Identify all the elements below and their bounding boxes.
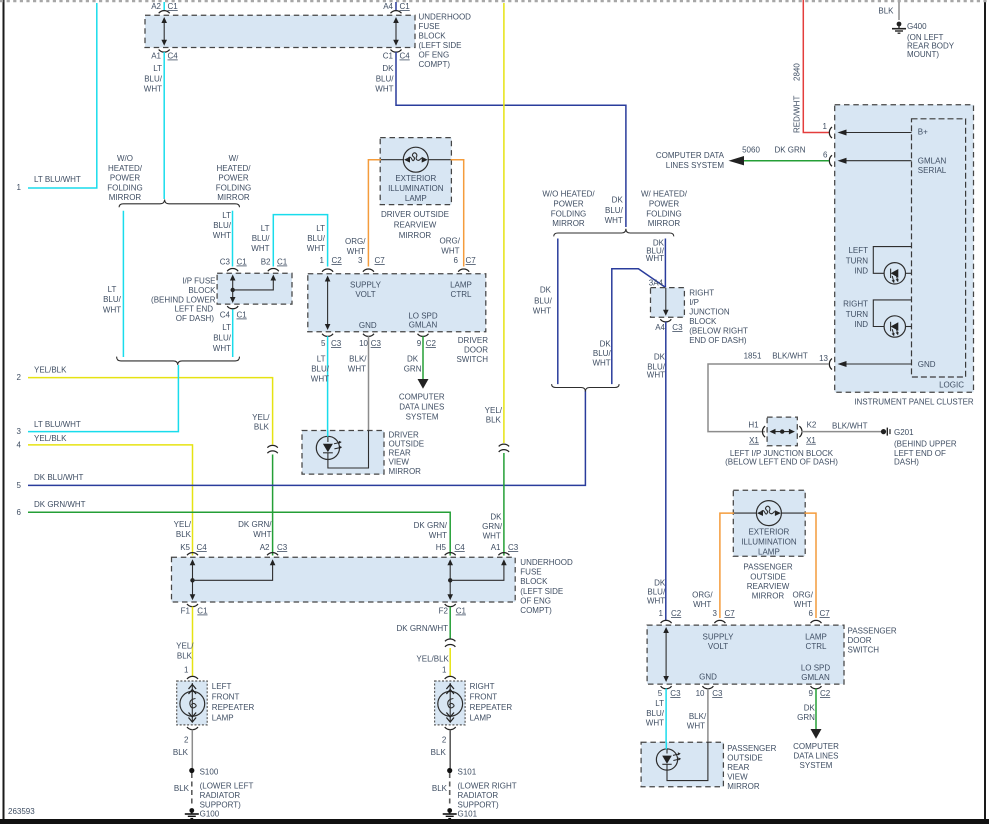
svg-text:K5: K5 — [180, 543, 190, 552]
right repeater pin2 — [431, 727, 456, 768]
svg-text:YEL/BLK: YEL/BLK — [34, 434, 67, 443]
svg-text:G201: G201 — [894, 428, 914, 437]
svg-text:GMLAN: GMLAN — [801, 673, 830, 682]
svg-text:(BEHIND LOWER: (BEHIND LOWER — [151, 296, 216, 305]
svg-text:A4: A4 — [383, 2, 393, 11]
UFB2 pin H5/C4 — [436, 543, 466, 555]
svg-text:POWER: POWER — [110, 174, 140, 183]
svg-text:GND: GND — [699, 673, 717, 682]
I/P fuse block label — [151, 277, 216, 324]
svg-text:COMPUTER DATA: COMPUTER DATA — [656, 151, 725, 160]
wire LT BLU/WHT pin5 down — [311, 336, 330, 437]
svg-text:REPEATER: REPEATER — [212, 703, 255, 712]
svg-text:(BELOW RIGHT: (BELOW RIGHT — [689, 327, 748, 336]
svg-text:WHT: WHT — [144, 85, 162, 94]
UFB1 pin A2/C1 top stub — [151, 2, 178, 13]
svg-text:C3: C3 — [277, 543, 288, 552]
svg-text:FUSE: FUSE — [419, 22, 440, 31]
wire LT BLU/WHT from A1 to brace — [144, 52, 164, 199]
svg-text:WHT: WHT — [429, 531, 447, 540]
svg-text:5: 5 — [17, 481, 22, 490]
svg-text:10: 10 — [696, 689, 705, 698]
svg-text:C7: C7 — [725, 609, 736, 618]
svg-text:C4: C4 — [197, 543, 208, 552]
brace 1 labels — [542, 189, 687, 228]
svg-text:RIGHT: RIGHT — [843, 300, 868, 309]
svg-text:ORG/: ORG/ — [440, 237, 461, 246]
wire DK GRN/WHT from F2 — [397, 607, 451, 639]
svg-text:LT: LT — [316, 224, 325, 233]
svg-text:BLK/: BLK/ — [349, 355, 367, 364]
svg-text:MIRROR: MIRROR — [217, 193, 250, 202]
computer data lines caption passenger — [793, 742, 839, 770]
svg-text:DRIVER OUTSIDE: DRIVER OUTSIDE — [381, 210, 449, 219]
underhood fuse block top box — [145, 15, 415, 47]
svg-text:LOGIC: LOGIC — [939, 381, 964, 390]
UFB2 internal right — [447, 559, 506, 600]
PDS pin 6/C7 top — [809, 609, 831, 623]
passenger exterior illumination lamp symbol — [733, 501, 805, 557]
svg-text:DK BLU/WHT: DK BLU/WHT — [34, 473, 83, 482]
wire BLK/WHT pin10 down — [348, 336, 369, 468]
svg-text:FRONT: FRONT — [212, 693, 240, 702]
svg-text:DK: DK — [804, 703, 816, 712]
svg-text:WHT: WHT — [375, 85, 393, 94]
svg-text:WHT: WHT — [647, 371, 665, 380]
driver mirror LED — [316, 436, 342, 459]
DDS pin 6/C7 top — [454, 256, 477, 272]
svg-text:B2: B2 — [261, 258, 271, 267]
svg-text:1: 1 — [184, 666, 189, 675]
svg-text:YEL/BLK: YEL/BLK — [416, 655, 449, 664]
svg-text:WHT: WHT — [253, 530, 271, 539]
I/P fuse block box — [217, 273, 292, 304]
svg-text:RIGHT: RIGHT — [689, 289, 714, 298]
svg-text:REAR: REAR — [727, 763, 749, 772]
svg-text:(LOWER RIGHT: (LOWER RIGHT — [458, 782, 517, 791]
svg-text:MIRROR: MIRROR — [552, 219, 585, 228]
svg-text:2840: 2840 — [793, 63, 802, 81]
cluster pin 13 GND — [744, 352, 936, 370]
svg-text:G400: G400 — [907, 22, 927, 31]
left front repeater lamp — [177, 681, 208, 725]
svg-text:OF ENG: OF ENG — [520, 596, 551, 605]
brace 0b gather — [117, 357, 240, 365]
svg-text:WHT: WHT — [103, 306, 121, 315]
svg-text:G100: G100 — [200, 810, 220, 819]
svg-text:LAMP: LAMP — [450, 281, 472, 290]
svg-text:GRN: GRN — [404, 365, 422, 374]
svg-text:C3: C3 — [220, 258, 231, 267]
svg-text:MIRROR: MIRROR — [399, 231, 432, 240]
svg-text:6: 6 — [454, 256, 459, 265]
svg-text:SWITCH: SWITCH — [848, 646, 880, 655]
cluster pin 6 GMLAN serial — [729, 146, 947, 176]
wire BLK/WHT pin10 down passenger — [687, 689, 708, 781]
svg-text:ILLUMINATION: ILLUMINATION — [741, 538, 797, 547]
computer data lines caption cluster — [656, 151, 725, 170]
svg-text:GRN/: GRN/ — [482, 522, 503, 531]
svg-text:H5: H5 — [436, 543, 447, 552]
svg-text:S100: S100 — [200, 768, 219, 777]
wire 6 DK GRN/WHT — [17, 500, 451, 556]
wire BLK to G101 — [432, 773, 450, 806]
PDS pin 10/C3 bottom — [696, 686, 723, 698]
wire 1851 BLK/WHT — [708, 364, 829, 432]
svg-text:TURN: TURN — [846, 310, 868, 319]
svg-text:B+: B+ — [918, 128, 928, 137]
svg-text:GMLAN: GMLAN — [918, 157, 947, 166]
wire 4 YEL/BLK — [17, 434, 193, 556]
svg-text:DK GRN/: DK GRN/ — [238, 520, 272, 529]
UFB2 pin A2/C3 — [260, 543, 288, 555]
svg-text:C7: C7 — [466, 256, 477, 265]
svg-text:DRIVER: DRIVER — [458, 336, 488, 345]
svg-text:VOLT: VOLT — [355, 290, 375, 299]
svg-text:DOOR: DOOR — [464, 346, 488, 355]
svg-text:BLK: BLK — [173, 748, 189, 757]
svg-text:MIRROR: MIRROR — [109, 193, 142, 202]
brace 0b right wire from IP fuse C4 — [213, 310, 233, 358]
svg-text:2: 2 — [442, 736, 447, 745]
svg-text:YEL/: YEL/ — [174, 520, 192, 529]
svg-text:(LEFT SIDE: (LEFT SIDE — [520, 587, 563, 596]
svg-text:C3: C3 — [670, 689, 681, 698]
svg-text:BLU/: BLU/ — [376, 75, 395, 84]
wire YEL/BLK to right repeater — [416, 648, 450, 677]
driver door switch caption — [456, 336, 488, 364]
svg-text:WHT: WHT — [347, 247, 365, 256]
svg-text:DK GRN/WHT: DK GRN/WHT — [34, 500, 86, 509]
svg-text:LEFT I/P JUNCTION BLOCK: LEFT I/P JUNCTION BLOCK — [730, 449, 834, 458]
svg-text:1: 1 — [320, 256, 325, 265]
wire DK BLU/WHT from C1 pin of UFB1 — [375, 52, 626, 227]
svg-text:LT BLU/WHT: LT BLU/WHT — [34, 420, 81, 429]
svg-text:WHT: WHT — [441, 247, 459, 256]
svg-text:BLK: BLK — [878, 7, 894, 16]
svg-text:VOLT: VOLT — [708, 642, 728, 651]
svg-text:EXTERIOR: EXTERIOR — [395, 174, 436, 183]
svg-text:C3: C3 — [712, 689, 723, 698]
svg-text:BLU/: BLU/ — [646, 709, 665, 718]
svg-text:F2: F2 — [439, 607, 449, 616]
svg-text:OF DASH): OF DASH) — [176, 314, 215, 323]
svg-text:POWER: POWER — [218, 174, 248, 183]
svg-text:FOLDING: FOLDING — [646, 209, 682, 218]
svg-text:I/P: I/P — [689, 298, 699, 307]
svg-text:F1: F1 — [181, 607, 191, 616]
cluster pin 1 B+ — [823, 122, 929, 138]
svg-text:EXTERIOR: EXTERIOR — [748, 528, 789, 537]
svg-text:DK GRN: DK GRN — [774, 146, 805, 155]
brace 1 — [554, 229, 674, 237]
svg-text:UNDERHOOD: UNDERHOOD — [520, 558, 573, 567]
svg-text:9: 9 — [417, 339, 422, 348]
svg-text:SYSTEM: SYSTEM — [406, 413, 439, 422]
svg-text:BLK/WHT: BLK/WHT — [832, 422, 868, 431]
svg-text:9: 9 — [809, 689, 814, 698]
wire 1 LT BLU/WHT — [17, 3, 97, 192]
svg-text:W/O: W/O — [117, 154, 133, 163]
svg-text:MIRROR: MIRROR — [752, 592, 785, 601]
svg-text:LAMP: LAMP — [805, 633, 827, 642]
UFB1 pin C1/C4 bottom — [383, 50, 411, 61]
svg-text:SUPPLY: SUPPLY — [350, 281, 382, 290]
right turn indicator — [843, 300, 911, 338]
svg-text:C1: C1 — [277, 258, 288, 267]
IP fuse pin C3/C1 top — [220, 258, 248, 272]
svg-text:DK: DK — [600, 339, 612, 348]
svg-text:SUPPORT): SUPPORT) — [200, 801, 242, 810]
wire DK GRN pin9 arrow — [404, 336, 429, 389]
svg-text:C1: C1 — [400, 2, 411, 11]
svg-text:DK: DK — [654, 579, 666, 588]
splice connector on wire 2 — [267, 445, 277, 453]
wire ORG/WHT left of passenger lamp — [692, 513, 734, 618]
left repeater pin2 — [173, 727, 198, 768]
UFB2 label — [520, 558, 573, 615]
wire DK BLU/WHT A4 to passenger switch pin1 — [647, 322, 666, 621]
svg-text:LT: LT — [108, 285, 117, 294]
svg-text:GND: GND — [918, 360, 936, 369]
svg-text:2: 2 — [17, 373, 22, 382]
passenger mirror caption right — [727, 744, 776, 791]
brace 1 left branch wire — [533, 239, 558, 385]
svg-text:REARVIEW: REARVIEW — [394, 221, 437, 230]
svg-text:SUPPORT): SUPPORT) — [458, 801, 500, 810]
svg-text:FOLDING: FOLDING — [216, 183, 252, 192]
svg-text:WHT: WHT — [213, 344, 231, 353]
svg-text:C3: C3 — [508, 543, 519, 552]
svg-text:FUSE: FUSE — [520, 568, 541, 577]
svg-text:LEFT END: LEFT END — [174, 305, 213, 314]
page border left — [3, 0, 5, 821]
passenger mirror internal wiring — [666, 742, 708, 781]
svg-text:BLU/: BLU/ — [213, 221, 232, 230]
svg-text:C4: C4 — [400, 52, 411, 61]
svg-text:BLU/: BLU/ — [311, 365, 330, 374]
svg-text:IND: IND — [854, 266, 868, 275]
left IP junction block — [748, 417, 817, 446]
brace 0 right branch wire — [213, 211, 233, 267]
UFB1 internal arrow left — [161, 17, 167, 46]
G101 caption — [458, 782, 517, 810]
svg-text:C2: C2 — [820, 689, 831, 698]
svg-text:RED/WHT: RED/WHT — [793, 96, 802, 133]
svg-text:GND: GND — [359, 321, 377, 330]
splice S100 — [189, 768, 219, 777]
svg-text:CTRL: CTRL — [806, 642, 827, 651]
svg-text:K2: K2 — [807, 421, 817, 430]
svg-text:X1: X1 — [749, 436, 759, 445]
PDS pin 9/C2 bottom — [809, 686, 831, 698]
svg-text:LEFT: LEFT — [848, 246, 868, 255]
passenger mirror caption — [743, 563, 792, 601]
svg-text:MIRROR: MIRROR — [727, 782, 760, 791]
svg-text:LAMP: LAMP — [212, 714, 234, 723]
svg-text:SWITCH: SWITCH — [456, 355, 488, 364]
svg-text:YEL/: YEL/ — [485, 406, 503, 415]
right IP junction block caption — [689, 289, 748, 346]
svg-text:WHT: WHT — [646, 718, 664, 727]
right IP junction block — [649, 279, 685, 333]
svg-text:1: 1 — [442, 666, 447, 675]
left turn indicator — [846, 246, 912, 284]
svg-text:BLK: BLK — [177, 652, 193, 661]
svg-text:REPEATER: REPEATER — [470, 703, 513, 712]
svg-text:FOLDING: FOLDING — [551, 209, 587, 218]
G100 caption — [200, 782, 254, 810]
svg-text:W/O HEATED/: W/O HEATED/ — [542, 189, 595, 198]
svg-text:LO SPD: LO SPD — [408, 312, 438, 321]
DDS pin 3/C7 top — [358, 256, 385, 272]
svg-text:WHT: WHT — [483, 532, 501, 541]
svg-text:X1: X1 — [806, 436, 816, 445]
UFB2 pin F2/C1 bottom — [439, 604, 467, 616]
svg-text:LT: LT — [153, 64, 162, 73]
svg-text:IND: IND — [854, 320, 868, 329]
svg-text:LT: LT — [222, 323, 231, 332]
svg-text:PASSENGER: PASSENGER — [848, 627, 897, 636]
svg-text:13: 13 — [819, 354, 828, 363]
svg-text:BLU/: BLU/ — [307, 234, 326, 243]
svg-text:DOOR: DOOR — [848, 636, 872, 645]
wire DK GRN to A1 — [482, 453, 504, 556]
IP fuse pin C4/C1 bottom — [220, 306, 248, 319]
svg-text:C1: C1 — [383, 52, 394, 61]
svg-text:C1: C1 — [168, 2, 179, 11]
svg-text:C1: C1 — [197, 607, 208, 616]
UFB2 pin K5/C4 — [180, 543, 207, 555]
computer data lines caption driver — [399, 393, 445, 422]
svg-text:COMPT): COMPT) — [520, 606, 552, 615]
driver door switch box — [308, 274, 486, 332]
svg-text:LAMP: LAMP — [758, 548, 780, 557]
IP fuse internal arrows — [230, 275, 276, 304]
svg-text:WHT: WHT — [687, 722, 705, 731]
svg-text:6: 6 — [17, 508, 22, 517]
svg-text:BLU/: BLU/ — [593, 349, 612, 358]
svg-text:DK GRN/: DK GRN/ — [414, 521, 448, 530]
driver mirror caption — [381, 210, 449, 240]
svg-text:WHT: WHT — [646, 254, 664, 263]
svg-text:3: 3 — [713, 609, 718, 618]
driver exterior illumination lamp box — [380, 138, 451, 205]
UFB1 label — [419, 13, 472, 70]
svg-text:C3: C3 — [672, 323, 683, 332]
svg-text:C4: C4 — [220, 311, 231, 320]
svg-text:ORG/: ORG/ — [692, 591, 713, 600]
svg-text:BLU/: BLU/ — [144, 75, 163, 84]
svg-text:DK: DK — [382, 64, 394, 73]
svg-text:LT: LT — [261, 224, 270, 233]
svg-text:CTRL: CTRL — [451, 290, 472, 299]
svg-text:DK GRN/WHT: DK GRN/WHT — [397, 624, 449, 633]
svg-text:LINES SYSTEM: LINES SYSTEM — [666, 161, 725, 170]
svg-text:BLOCK: BLOCK — [188, 286, 216, 295]
svg-text:3: 3 — [358, 256, 363, 265]
svg-text:ILLUMINATION: ILLUMINATION — [388, 184, 444, 193]
wire RED/WHT to pin1 — [793, 0, 830, 133]
UFB1 pin A1/C4 bottom — [151, 50, 178, 61]
svg-text:BLU/: BLU/ — [103, 295, 122, 304]
svg-text:COMPT): COMPT) — [419, 60, 451, 69]
splice S101 — [447, 768, 477, 777]
svg-text:5060: 5060 — [742, 146, 760, 155]
svg-text:LT: LT — [317, 355, 326, 364]
svg-text:BLK: BLK — [486, 416, 502, 425]
svg-text:BLU/: BLU/ — [647, 588, 666, 597]
DDS internal arrow — [325, 276, 331, 331]
passenger door switch caption — [848, 627, 897, 655]
svg-text:VIEW: VIEW — [727, 773, 748, 782]
UFB2 pin A1/C3 — [491, 543, 519, 555]
wire ORG/WHT right of driver lamp — [440, 160, 464, 267]
page border right — [984, 0, 986, 821]
svg-text:LAMP: LAMP — [470, 714, 492, 723]
svg-text:RIGHT: RIGHT — [470, 682, 495, 691]
svg-text:6: 6 — [823, 151, 828, 160]
svg-text:G101: G101 — [458, 810, 478, 819]
svg-text:MIRROR: MIRROR — [648, 219, 681, 228]
svg-text:1: 1 — [659, 609, 664, 618]
svg-text:BLOCK: BLOCK — [689, 317, 717, 326]
svg-text:BLU/: BLU/ — [213, 334, 232, 343]
svg-text:PASSENGER: PASSENGER — [743, 563, 792, 572]
svg-text:DK: DK — [490, 513, 502, 522]
svg-text:I/P FUSE: I/P FUSE — [182, 277, 215, 286]
svg-text:WHT: WHT — [647, 597, 665, 606]
svg-text:WHT: WHT — [348, 365, 366, 374]
diagram id 263593 — [8, 807, 35, 816]
svg-text:RADIATOR: RADIATOR — [200, 791, 241, 800]
svg-text:BLU/: BLU/ — [534, 296, 553, 305]
svg-text:3A4: 3A4 — [649, 279, 664, 288]
svg-text:C1: C1 — [237, 258, 248, 267]
PDS pin 3/C7 top — [713, 609, 736, 623]
svg-text:DATA LINES: DATA LINES — [793, 752, 838, 761]
svg-text:ORG/: ORG/ — [345, 237, 366, 246]
brace 1 right branch wire — [646, 239, 666, 288]
svg-text:2: 2 — [184, 736, 189, 745]
DDS pin 10/C3 bottom — [359, 334, 381, 348]
svg-text:W/ HEATED/: W/ HEATED/ — [641, 189, 688, 198]
svg-text:BLK/WHT: BLK/WHT — [772, 352, 808, 361]
svg-text:DASH): DASH) — [894, 458, 919, 467]
PDS internal arrow — [663, 627, 669, 682]
svg-text:263593: 263593 — [8, 807, 35, 816]
svg-text:A4: A4 — [655, 323, 665, 332]
wire YEL/BLK x504 — [485, 3, 504, 443]
svg-text:S101: S101 — [458, 768, 477, 777]
svg-text:10: 10 — [359, 339, 368, 348]
svg-text:SUPPLY: SUPPLY — [703, 633, 735, 642]
UFB2 internal left — [190, 559, 276, 600]
PDS internal labels — [699, 633, 830, 682]
wire BLK/WHT to G201 — [802, 422, 882, 432]
svg-text:5: 5 — [658, 689, 663, 698]
svg-text:C1: C1 — [456, 607, 467, 616]
svg-text:REARVIEW: REARVIEW — [747, 582, 790, 591]
left repeater caption — [212, 682, 255, 723]
svg-text:A2: A2 — [260, 543, 270, 552]
brace 0 left branch wire — [103, 211, 124, 357]
svg-text:BLOCK: BLOCK — [520, 577, 548, 586]
svg-text:COMPUTER: COMPUTER — [793, 742, 839, 751]
svg-text:POWER: POWER — [649, 199, 679, 208]
passenger mirror box — [641, 742, 723, 787]
svg-text:DRIVER: DRIVER — [389, 431, 419, 440]
